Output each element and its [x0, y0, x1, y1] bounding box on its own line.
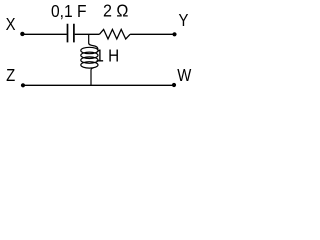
node Y terminal dot — [172, 32, 176, 36]
wire junction lead down to inductor — [89, 34, 98, 50]
resistor R 2 ohm zigzag — [99, 29, 130, 39]
svg-text:Z: Z — [6, 66, 15, 85]
svg-text:X: X — [6, 15, 16, 34]
wire top-left from X to capacitor — [23, 33, 67, 35]
svg-text:Y: Y — [179, 11, 189, 30]
svg-text:W: W — [177, 66, 192, 85]
wire bottom from Z to W — [23, 84, 174, 86]
node W terminal dot — [172, 83, 176, 87]
wire inductor bottom lead — [91, 68, 94, 85]
capacitor C 0,1 F plates — [68, 24, 74, 43]
wire capacitor to resistor — [75, 33, 100, 35]
svg-text:1 H: 1 H — [95, 45, 119, 65]
inductor L1 1 H coil turns — [81, 47, 98, 68]
svg-text:0,1 F: 0,1 F — [51, 1, 86, 21]
svg-text:2 Ω: 2 Ω — [103, 1, 128, 21]
node X terminal dot — [20, 32, 24, 36]
node Z terminal dot — [21, 83, 25, 87]
wire resistor to Y — [130, 33, 174, 35]
